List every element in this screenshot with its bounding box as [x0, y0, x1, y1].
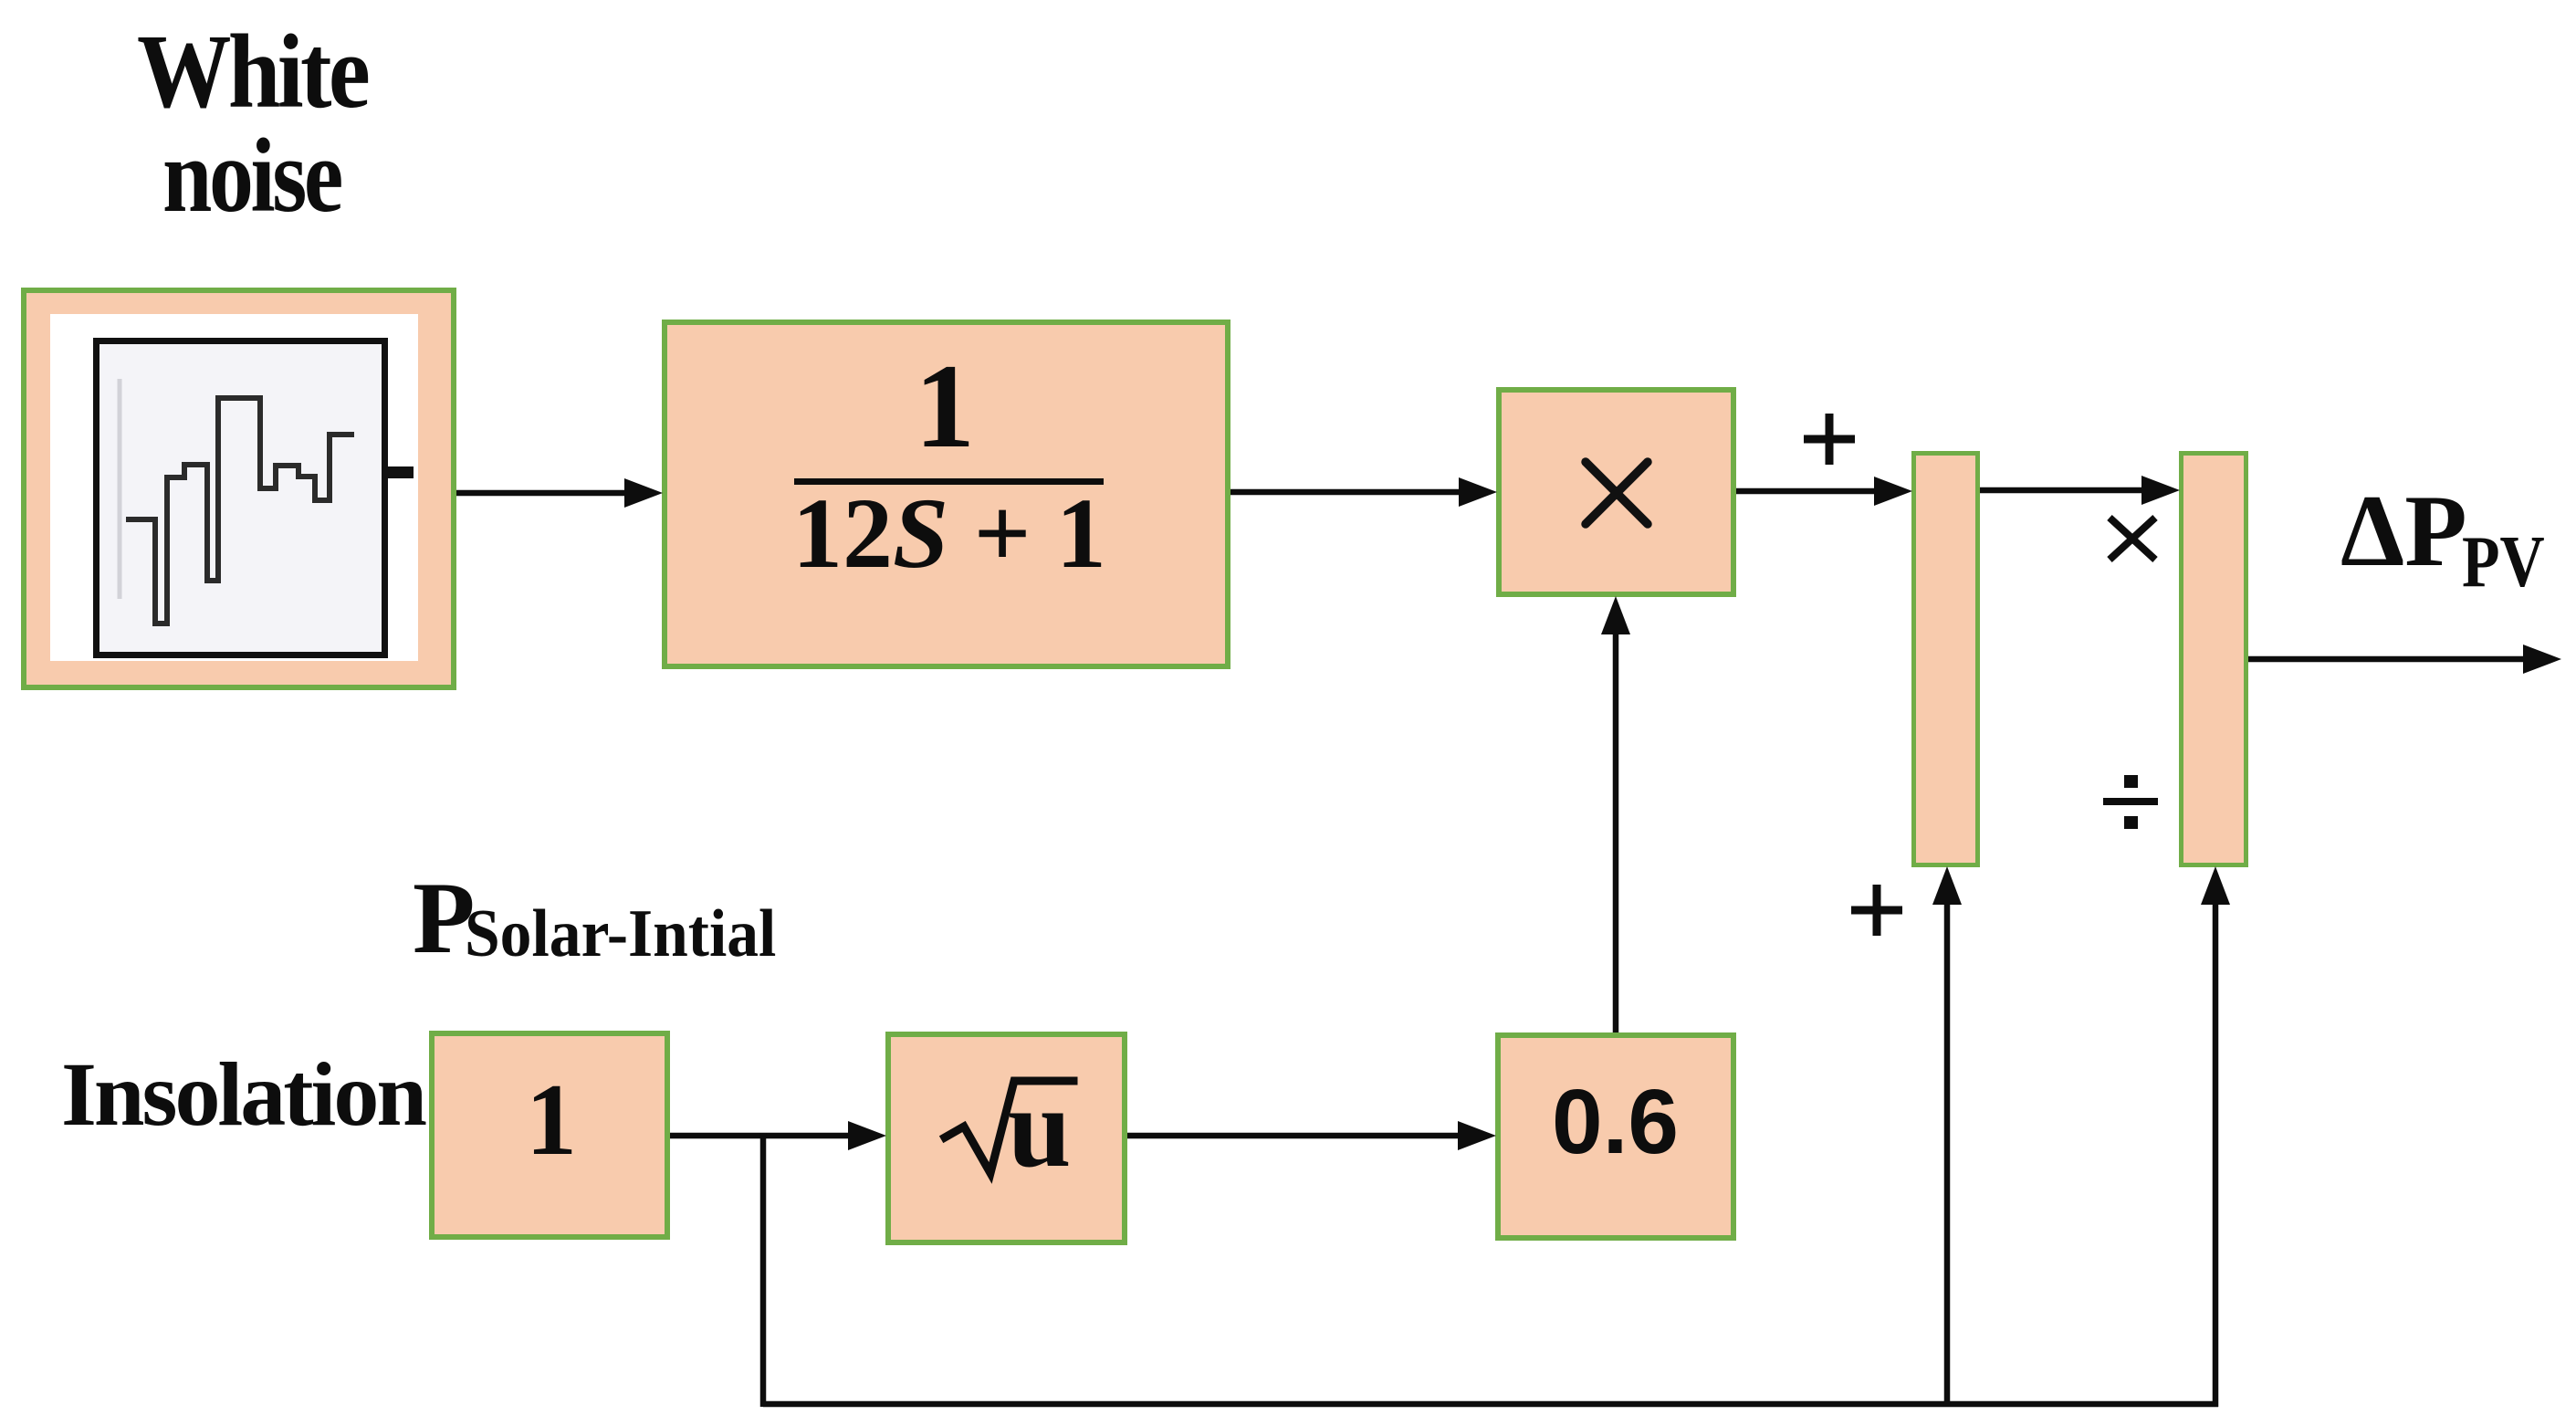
TF fraction bar: [794, 478, 1104, 485]
wire: product to sum bar 1: [1736, 477, 1912, 506]
small multiply sign between bars: [2110, 518, 2155, 560]
small divide sign between bars: [2103, 775, 2158, 829]
bottom feedback wire: [763, 1401, 2218, 1408]
vertical arrow into sum bar 1 bottom: [1932, 866, 1962, 1404]
sqrt(u) u glyph: [1008, 1072, 1072, 1186]
plus sign above sum bar 1 input: [1804, 414, 1855, 465]
wire: 0.6 up to product block: [1601, 596, 1630, 1032]
sum bar 2: [2179, 451, 2248, 867]
label P Solar-Intial: [413, 867, 475, 970]
wire: constant 1 output with branch: [670, 1121, 886, 1150]
TF numerator 1: [915, 346, 975, 466]
white noise output port tick: [388, 466, 414, 478]
sum bar 1: [1911, 451, 1980, 867]
wire: branch down from constant 1 output: [760, 1133, 767, 1407]
label dP_PV: [2340, 480, 2467, 582]
gain block 0.6: [1495, 1032, 1736, 1241]
product block X glyph: [1586, 462, 1648, 524]
plus sign below-left of sum bar 1: [1851, 885, 1902, 936]
wire: transfer fn to product: [1230, 477, 1497, 507]
label "White noise": [137, 19, 367, 124]
wire: sum bar 2 to output dP_PV: [2248, 645, 2561, 674]
label Insolation: [61, 1049, 424, 1140]
radical sign of sqrt(u): [945, 1081, 1073, 1173]
TF denominator 12S+1: [792, 483, 1106, 583]
vertical arrow into sum bar 2 bottom: [2201, 866, 2230, 1407]
sqrt(u) block: [885, 1032, 1127, 1245]
white noise waveform icon: [93, 339, 403, 676]
wire: sum bar 1 to sum bar 2: [1980, 476, 2180, 505]
white noise source block: [21, 288, 456, 690]
transfer function block 1/(12S+1): [662, 320, 1230, 669]
wire: sqrt(u) to 0.6: [1127, 1121, 1496, 1150]
wire: white noise to transfer fn: [456, 478, 663, 508]
product block (x): [1496, 387, 1736, 597]
constant block 1 (Insolation): [429, 1031, 670, 1240]
